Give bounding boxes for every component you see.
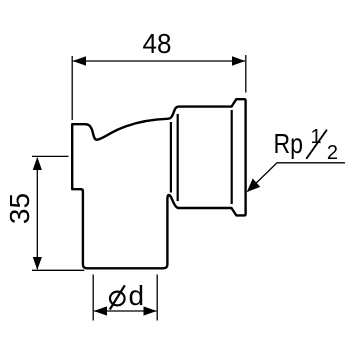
extension line left of phi-d (92, 275, 94, 321)
leader line for Rp1/2 (248, 163, 346, 192)
socket ring inner line (231, 110, 233, 204)
arrowhead right of phi-d (144, 306, 157, 315)
fraction slash (306, 130, 327, 159)
phi symbol (110, 285, 125, 309)
svg-text:Rp: Rp (274, 128, 304, 159)
dimension line phi-d (94, 310, 156, 312)
leader arrowhead (247, 179, 260, 193)
arrowhead top of 35 (33, 157, 42, 170)
svg-text:48: 48 (143, 28, 172, 59)
extension line bottom of 35 (32, 269, 84, 271)
extension line right of 48 dimension (245, 55, 247, 93)
arrowhead left of 48 (73, 56, 86, 66)
arrowhead left of phi-d (94, 306, 107, 315)
svg-text:2: 2 (327, 142, 338, 164)
fitting body outline (72, 99, 245, 268)
dimension line 48 (73, 60, 245, 62)
extension line left of 48 dimension (71, 56, 73, 120)
dimension line 35 (36, 158, 38, 269)
svg-text:35: 35 (4, 193, 35, 224)
svg-text:d: d (129, 280, 145, 311)
arrowhead right of 48 (232, 56, 245, 66)
extension line right of phi-d (156, 275, 158, 321)
socket face line 2 (177, 114, 179, 201)
extension line top of 35 (32, 155, 69, 157)
socket face line 1 (170, 122, 172, 193)
arrowhead bottom of 35 (33, 257, 42, 270)
